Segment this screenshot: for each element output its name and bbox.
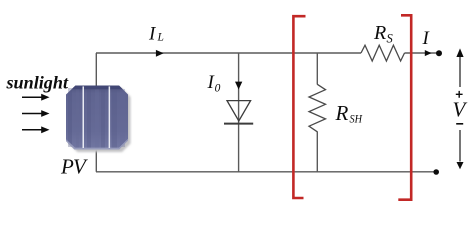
wire bottom horizontal (96, 171, 436, 173)
red bracket right (398, 15, 411, 199)
PV cell shadow (69, 88, 131, 152)
wire shunt branch upper (316, 53, 318, 85)
wire diode branch vertical (238, 53, 240, 172)
wire shunt branch lower (316, 132, 318, 172)
resistor RSH vertical (309, 84, 326, 132)
PV cell body (66, 86, 128, 150)
svg-text:sunlight: sunlight (5, 73, 69, 93)
PV cell busbar 1 (83, 86, 85, 148)
voltage V polarity up arrow (459, 57, 461, 88)
diode D1 (227, 101, 251, 121)
wire top horizontal (96, 52, 361, 54)
node dot top output terminal (436, 50, 442, 56)
wire top right segment (405, 52, 438, 54)
svg-text:S: S (387, 32, 394, 46)
PV cell texture streaks (68, 87, 125, 148)
svg-text:I: I (148, 23, 157, 44)
svg-text:R: R (335, 101, 349, 125)
resistor RS horizontal (361, 45, 405, 61)
svg-text:V: V (453, 98, 468, 122)
PV cell bottom bevel (66, 139, 128, 150)
arrow current IL on top wire (156, 50, 164, 57)
svg-text:P: P (60, 155, 74, 179)
svg-text:SH: SH (350, 111, 364, 125)
arrow current I at output (425, 50, 432, 56)
wire left vertical upper (95, 53, 97, 90)
sunlight arrow 1 (22, 96, 42, 98)
plus sign (456, 91, 463, 98)
sunlight arrow 2 (22, 113, 42, 115)
minus sign (456, 123, 463, 125)
svg-text:I: I (422, 28, 431, 49)
PV cell top dark band (72, 86, 123, 90)
svg-text:L: L (157, 32, 164, 44)
svg-text:0: 0 (215, 83, 221, 95)
svg-text:V: V (73, 155, 88, 179)
voltage V polarity down arrow (459, 130, 461, 162)
node dot bottom output terminal (433, 169, 439, 175)
sunlight arrow 3 (22, 129, 42, 131)
svg-text:R: R (373, 22, 386, 44)
wire left vertical lower (95, 146, 97, 172)
red bracket left (293, 16, 305, 198)
arrow current I0 on diode branch (235, 82, 242, 90)
PV cell busbar 2 (109, 86, 111, 148)
